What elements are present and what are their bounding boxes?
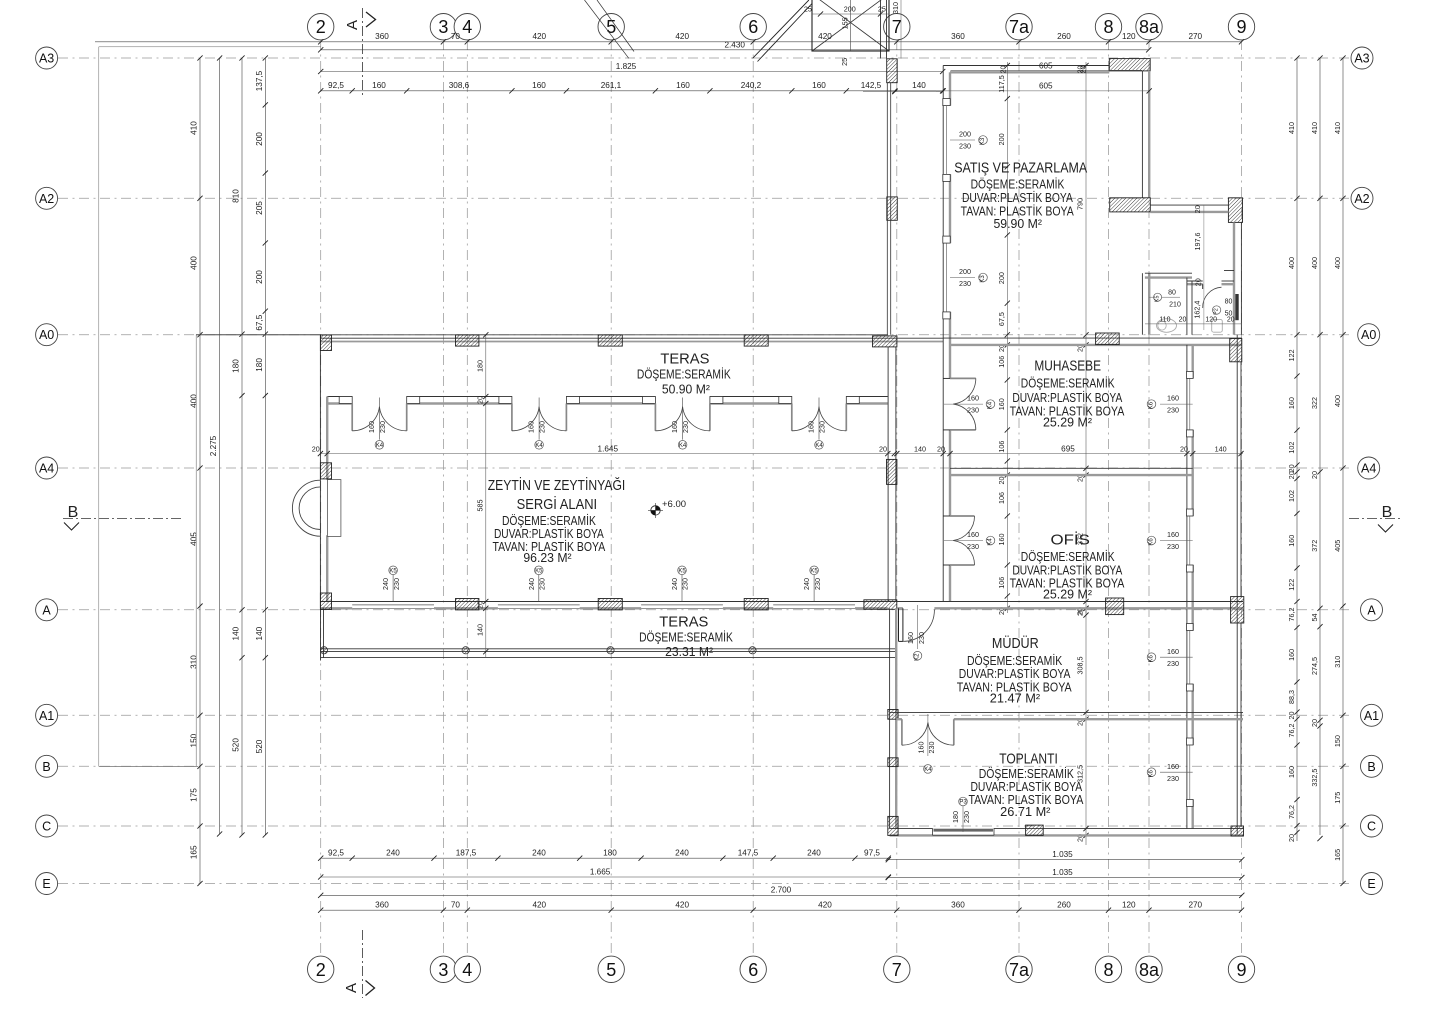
svg-text:120: 120	[1122, 32, 1136, 41]
svg-text:410: 410	[190, 121, 199, 135]
svg-text:230: 230	[681, 421, 690, 433]
svg-text:230: 230	[959, 142, 971, 151]
svg-text:200: 200	[997, 272, 1006, 284]
svg-text:187,5: 187,5	[456, 848, 477, 857]
MUDUR/TOPLANTI west wall	[889, 608, 891, 828]
wall row C (TOPLANTI south)	[890, 828, 1244, 830]
svg-text:K2: K2	[915, 653, 921, 661]
svg-text:DUVAR:PLASTİK BOYA: DUVAR:PLASTİK BOYA	[1012, 564, 1122, 578]
grid bubbles bottom	[308, 956, 334, 982]
hall west wall	[319, 335, 321, 608]
svg-text:K5: K5	[389, 568, 397, 574]
hall entrance door west: swing arcs	[292, 480, 320, 536]
svg-text:7a: 7a	[1009, 17, 1030, 37]
svg-text:322: 322	[1310, 397, 1319, 409]
svg-text:160: 160	[1167, 762, 1179, 771]
svg-text:DUVAR:PLASTİK BOYA: DUVAR:PLASTİK BOYA	[494, 527, 604, 541]
dimension 1.035 upper	[888, 859, 1242, 861]
svg-text:DUVAR:PLASTİK BOYA: DUVAR:PLASTİK BOYA	[959, 667, 1071, 681]
grid bubbles top	[308, 14, 334, 40]
grid bubbles right	[1351, 47, 1373, 69]
svg-text:230: 230	[962, 811, 971, 823]
svg-text:230: 230	[1167, 659, 1179, 668]
svg-text:20: 20	[1179, 317, 1187, 324]
WC door P2 arc	[1203, 287, 1222, 308]
roof diagonal pair east	[753, 0, 809, 58]
svg-text:106: 106	[997, 356, 1006, 368]
svg-text:1.665: 1.665	[590, 867, 611, 876]
door K2 leaf and arc	[898, 608, 900, 641]
extension line A0 left	[196, 334, 321, 336]
svg-text:P2: P2	[1214, 308, 1220, 315]
office block A0 north wall	[943, 337, 1242, 339]
svg-text:400: 400	[1287, 257, 1296, 269]
svg-text:405: 405	[190, 532, 199, 546]
svg-text:DUVAR:PLASTİK BOYA: DUVAR:PLASTİK BOYA	[1012, 391, 1122, 405]
sales top dimension rows	[951, 69, 1143, 71]
svg-text:160: 160	[906, 632, 915, 644]
svg-text:K6: K6	[1149, 401, 1155, 409]
svg-text:1.035: 1.035	[1052, 850, 1073, 859]
svg-text:137,5: 137,5	[255, 70, 264, 91]
svg-text:117,5: 117,5	[997, 75, 1006, 92]
bottom column spacing chain	[321, 909, 1242, 911]
svg-text:200: 200	[255, 132, 264, 146]
svg-text:20: 20	[1193, 278, 1202, 286]
svg-text:25.29 M²: 25.29 M²	[1043, 588, 1092, 602]
wire: A0 line solid across hall	[196, 334, 888, 336]
svg-text:520: 520	[232, 738, 241, 752]
svg-text:160: 160	[676, 81, 690, 90]
svg-text:A0: A0	[1361, 328, 1376, 342]
svg-text:20: 20	[1310, 719, 1319, 727]
svg-text:200: 200	[959, 267, 971, 276]
svg-text:150: 150	[1333, 735, 1342, 747]
svg-text:DÖŞEME:SERAMİK: DÖŞEME:SERAMİK	[979, 767, 1075, 781]
svg-text:20: 20	[1227, 317, 1235, 324]
svg-text:76,2: 76,2	[1287, 608, 1296, 622]
svg-text:K3: K3	[980, 275, 986, 283]
svg-text:2: 2	[316, 960, 326, 980]
lower terrace edge lines and columns	[320, 608, 322, 660]
pier at col7 top (A3)	[887, 59, 898, 83]
sales interior chain x=1086	[1085, 62, 1087, 613]
svg-text:230: 230	[1167, 774, 1179, 783]
svg-text:197,6: 197,6	[1193, 233, 1202, 251]
svg-text:160: 160	[670, 421, 679, 433]
top window dimension row	[321, 90, 943, 92]
svg-text:308,5: 308,5	[1076, 657, 1085, 675]
svg-text:8: 8	[1103, 17, 1113, 37]
svg-text:155: 155	[841, 17, 850, 29]
svg-text:DÖŞEME:SERAMİK: DÖŞEME:SERAMİK	[971, 178, 1065, 192]
svg-text:E: E	[42, 877, 50, 891]
svg-text:410: 410	[1333, 122, 1342, 134]
svg-text:70: 70	[451, 32, 461, 41]
extension line x=196 A0 to B	[195, 335, 197, 767]
svg-text:K4: K4	[815, 443, 823, 449]
door K4 into room at y=404	[943, 377, 950, 379]
window K5 at x=814	[813, 575, 815, 602]
svg-text:59.90 M²: 59.90 M²	[993, 217, 1042, 231]
svg-text:270: 270	[1188, 900, 1202, 909]
svg-text:420: 420	[818, 900, 832, 909]
svg-text:K4: K4	[924, 767, 932, 773]
piers on A0 line	[320, 335, 331, 351]
svg-text:TERAS: TERAS	[659, 614, 708, 631]
svg-text:230: 230	[967, 406, 979, 415]
svg-text:A4: A4	[1361, 462, 1376, 476]
office east wall with K6 windows	[1186, 345, 1188, 829]
svg-text:8a: 8a	[1139, 17, 1160, 37]
dimension 1.035 lower	[888, 877, 1242, 879]
svg-text:K5: K5	[1155, 296, 1161, 303]
svg-text:80: 80	[1168, 290, 1176, 297]
svg-text:21.47 M²: 21.47 M²	[990, 692, 1040, 706]
svg-text:K5: K5	[535, 568, 543, 574]
sales west wall with K3 windows and K4 doors	[942, 66, 944, 602]
svg-text:4: 4	[462, 17, 472, 37]
svg-text:A2: A2	[39, 192, 54, 206]
hall interior dimension chain x=486	[485, 335, 487, 658]
svg-text:102: 102	[1287, 442, 1296, 454]
svg-text:420: 420	[532, 32, 546, 41]
wire: A0 terrace edge double line	[321, 337, 943, 339]
svg-text:A: A	[344, 20, 361, 30]
svg-text:110: 110	[1159, 317, 1170, 324]
svg-text:K3: K3	[980, 137, 986, 145]
wall row A (OFIS/MUDUR) with door K2	[864, 601, 1243, 603]
shaft dims	[812, 13, 889, 15]
level marker +6.00	[651, 506, 660, 515]
svg-text:DÖŞEME:SERAMİK: DÖŞEME:SERAMİK	[639, 631, 733, 645]
svg-text:K6: K6	[1149, 769, 1155, 777]
svg-text:308,6: 308,6	[449, 81, 470, 90]
dimension 2.700	[321, 894, 1242, 896]
svg-text:6: 6	[748, 960, 758, 980]
svg-text:25: 25	[840, 58, 849, 66]
svg-text:TOPLANTI: TOPLANTI	[999, 751, 1058, 768]
svg-text:20: 20	[312, 444, 320, 453]
svg-text:360: 360	[375, 32, 389, 41]
svg-text:K6: K6	[1149, 654, 1155, 662]
svg-text:102: 102	[1287, 490, 1296, 502]
svg-text:K4: K4	[988, 538, 994, 546]
svg-text:605: 605	[1039, 61, 1053, 70]
svg-text:120: 120	[1205, 317, 1217, 324]
terrace column at x=610.5	[607, 647, 614, 654]
svg-text:240: 240	[802, 578, 811, 590]
window K6 at y=540	[1187, 509, 1194, 516]
svg-text:150: 150	[190, 733, 199, 747]
svg-text:165: 165	[190, 845, 199, 859]
svg-text:A: A	[343, 983, 360, 993]
pier col7 at A4	[887, 459, 897, 484]
svg-text:140: 140	[912, 81, 926, 90]
svg-text:160: 160	[1287, 766, 1296, 778]
WC east outer wall	[1233, 222, 1235, 334]
svg-text:810: 810	[232, 189, 241, 203]
dimension 1.825	[321, 71, 943, 73]
svg-text:210: 210	[1169, 302, 1181, 309]
svg-text:274,5: 274,5	[1310, 657, 1319, 675]
svg-text:360: 360	[375, 900, 389, 909]
svg-text:420: 420	[818, 32, 832, 41]
svg-text:DUVAR:PLASTİK BOYA: DUVAR:PLASTİK BOYA	[962, 191, 1073, 205]
svg-text:695: 695	[1061, 444, 1075, 453]
svg-text:200: 200	[997, 133, 1006, 145]
svg-text:DÖŞEME:SERAMİK: DÖŞEME:SERAMİK	[637, 368, 731, 382]
svg-text:8a: 8a	[1139, 960, 1160, 980]
shaft box with X	[812, 0, 889, 51]
svg-text:180: 180	[232, 359, 241, 373]
svg-text:3: 3	[438, 17, 448, 37]
svg-text:140: 140	[1215, 444, 1227, 453]
hall south wall with K5 windows	[320, 601, 1243, 603]
svg-text:585: 585	[476, 500, 485, 512]
extension line top-left horizontal	[99, 46, 321, 48]
left chain 810/180/140/520	[241, 58, 243, 835]
svg-text:230: 230	[537, 421, 546, 433]
svg-text:20: 20	[1180, 444, 1188, 453]
svg-text:97,5: 97,5	[864, 848, 880, 857]
svg-text:230: 230	[538, 578, 547, 590]
svg-text:B: B	[42, 760, 50, 774]
svg-text:230: 230	[1167, 542, 1179, 551]
svg-text:180: 180	[476, 360, 485, 372]
left chain window offsets	[264, 58, 266, 835]
svg-text:180: 180	[255, 358, 264, 372]
sales east wall upper	[1141, 71, 1143, 198]
svg-text:20: 20	[1287, 712, 1296, 720]
pier A3 col8-8a	[1109, 59, 1150, 71]
extension line far left vertical	[98, 47, 100, 767]
svg-text:230: 230	[378, 421, 387, 433]
svg-text:23.31 M²: 23.31 M²	[665, 645, 713, 659]
svg-text:5: 5	[606, 960, 616, 980]
svg-text:8: 8	[1103, 960, 1113, 980]
svg-text:160: 160	[1287, 397, 1296, 409]
window K4 at x=379: jambs, leaves, swing arcs	[339, 397, 352, 404]
svg-text:230: 230	[813, 578, 822, 590]
svg-text:106: 106	[997, 492, 1006, 504]
svg-text:TERAS: TERAS	[660, 351, 709, 368]
svg-text:180: 180	[603, 848, 617, 857]
terrace column at x=324	[320, 647, 327, 654]
dimension line at corridor top	[863, 91, 943, 93]
svg-text:E: E	[1367, 877, 1375, 891]
right chain R3	[1342, 58, 1344, 884]
WC west wall	[1141, 273, 1143, 335]
svg-text:+6.00: +6.00	[662, 499, 686, 510]
svg-text:B: B	[1367, 760, 1375, 774]
svg-text:260: 260	[1057, 900, 1071, 909]
svg-text:520: 520	[255, 739, 264, 753]
svg-text:160: 160	[532, 81, 546, 90]
svg-text:160: 160	[1167, 394, 1179, 403]
svg-text:67,5: 67,5	[255, 314, 264, 330]
svg-text:240: 240	[527, 578, 536, 590]
hall east wall (corridor side)	[887, 347, 889, 602]
svg-text:160: 160	[916, 742, 925, 754]
WC north partition	[1145, 272, 1192, 274]
svg-text:26.71 M²: 26.71 M²	[1000, 805, 1050, 819]
svg-text:205: 205	[255, 201, 264, 215]
svg-text:MUHASEBE: MUHASEBE	[1034, 357, 1101, 374]
svg-text:A1: A1	[1364, 709, 1379, 723]
svg-text:A: A	[42, 603, 51, 617]
svg-text:C: C	[42, 820, 51, 834]
section A-A line top	[362, 8, 364, 97]
svg-text:400: 400	[1310, 257, 1319, 269]
svg-text:6: 6	[748, 17, 758, 37]
svg-text:A: A	[1367, 603, 1376, 617]
svg-text:SERGİ ALANI: SERGİ ALANI	[517, 495, 598, 513]
svg-text:96.23 M²: 96.23 M²	[523, 551, 571, 565]
svg-text:420: 420	[675, 32, 689, 41]
piers on row A	[320, 593, 331, 610]
svg-text:25: 25	[878, 5, 886, 14]
svg-text:240: 240	[381, 578, 390, 590]
left chain outer (row spacing)	[199, 58, 201, 884]
svg-text:400: 400	[190, 256, 199, 270]
right chain R1	[1296, 58, 1298, 841]
svg-text:A3: A3	[39, 52, 54, 66]
door K4 into room at y=540	[943, 515, 950, 517]
svg-text:20: 20	[879, 444, 887, 453]
pier col7 at A2	[887, 197, 898, 220]
svg-text:160: 160	[527, 421, 536, 433]
svg-text:200: 200	[959, 130, 971, 139]
svg-text:20: 20	[1076, 66, 1085, 74]
top dimension chain (column spacing)	[95, 41, 1242, 43]
svg-text:88,3: 88,3	[1287, 690, 1296, 704]
svg-text:120: 120	[1122, 900, 1136, 909]
svg-text:142,5: 142,5	[861, 81, 882, 90]
svg-text:160: 160	[1167, 647, 1179, 656]
svg-text:9: 9	[1236, 17, 1246, 37]
svg-text:1.645: 1.645	[598, 444, 619, 453]
svg-text:7: 7	[892, 17, 902, 37]
svg-text:140: 140	[255, 626, 264, 640]
window K3 at y=140	[943, 99, 950, 106]
svg-text:240: 240	[532, 848, 546, 857]
svg-text:230: 230	[967, 542, 979, 551]
right chain R2	[1319, 58, 1321, 835]
svg-text:310: 310	[1333, 656, 1342, 668]
svg-text:372: 372	[1310, 540, 1319, 552]
terrace column at x=752.5	[749, 647, 756, 654]
dimension 2.430	[321, 49, 1149, 51]
svg-text:332,5: 332,5	[1310, 769, 1319, 787]
svg-text:261,1: 261,1	[601, 81, 622, 90]
svg-text:180: 180	[951, 811, 960, 823]
svg-text:140: 140	[914, 444, 926, 453]
svg-text:260: 260	[1057, 32, 1071, 41]
svg-text:76,2: 76,2	[1287, 805, 1296, 819]
svg-text:20: 20	[1310, 471, 1319, 479]
window K3 at y=278	[943, 236, 950, 243]
svg-text:A3: A3	[1354, 52, 1369, 66]
svg-text:230: 230	[959, 279, 971, 288]
svg-text:20: 20	[1287, 834, 1296, 842]
svg-text:310: 310	[190, 655, 199, 669]
svg-text:50.90 M²: 50.90 M²	[662, 383, 710, 397]
svg-text:230: 230	[917, 632, 926, 644]
svg-text:3: 3	[438, 960, 448, 980]
courtyard west double line (col 7)	[886, 83, 888, 335]
svg-text:605: 605	[1039, 81, 1053, 90]
svg-text:4: 4	[462, 960, 472, 980]
left chain 2.275	[219, 58, 221, 834]
svg-text:140: 140	[232, 626, 241, 640]
terrace column at x=465.7	[462, 647, 469, 654]
grid: horizontal row axes	[58, 57, 1352, 59]
window K4 at x=819: jambs, leaves, swing arcs	[779, 397, 792, 404]
window K4 at x=683: jambs, leaves, swing arcs	[642, 397, 655, 404]
svg-text:240: 240	[807, 848, 821, 857]
svg-text:230: 230	[1167, 406, 1179, 415]
svg-text:OFİS: OFİS	[1051, 531, 1090, 549]
svg-text:25.29 M²: 25.29 M²	[1043, 416, 1092, 430]
svg-text:K4: K4	[988, 401, 994, 409]
svg-text:K4: K4	[679, 443, 687, 449]
svg-text:160: 160	[997, 398, 1006, 410]
svg-text:165: 165	[1333, 849, 1342, 861]
svg-text:360: 360	[951, 900, 965, 909]
svg-text:400: 400	[190, 394, 199, 408]
svg-text:310: 310	[891, 2, 900, 14]
svg-text:P3: P3	[959, 800, 967, 806]
svg-text:160: 160	[967, 530, 979, 539]
svg-text:7: 7	[892, 960, 902, 980]
svg-text:122: 122	[1287, 349, 1296, 361]
svg-text:9: 9	[1236, 960, 1246, 980]
svg-text:70: 70	[451, 900, 461, 909]
svg-text:400: 400	[1333, 257, 1342, 269]
wall row A1 (MUDUR/TOPLANTI) with double door K4	[890, 711, 1243, 713]
svg-text:405: 405	[1333, 540, 1342, 552]
svg-text:20: 20	[1193, 205, 1202, 213]
svg-text:230: 230	[681, 578, 690, 590]
svg-text:K5: K5	[678, 568, 686, 574]
svg-text:80: 80	[1225, 299, 1233, 306]
window P2 strip in east wall	[1235, 294, 1238, 320]
svg-text:270: 270	[1188, 32, 1202, 41]
svg-text:200: 200	[255, 270, 264, 284]
svg-text:175: 175	[1333, 792, 1342, 804]
svg-text:1.035: 1.035	[1052, 868, 1073, 877]
extension line B left	[99, 765, 198, 767]
svg-text:240: 240	[675, 848, 689, 857]
svg-text:420: 420	[532, 900, 546, 909]
sales interior chain x=1007	[1006, 62, 1008, 613]
svg-text:A2: A2	[1354, 192, 1369, 206]
svg-text:K4: K4	[535, 443, 543, 449]
svg-text:400: 400	[1333, 395, 1342, 407]
svg-text:140: 140	[476, 624, 485, 636]
svg-text:175: 175	[190, 788, 199, 802]
svg-text:2: 2	[316, 17, 326, 37]
grid bubbles left	[36, 47, 58, 69]
svg-text:C: C	[1367, 820, 1376, 834]
svg-text:20: 20	[937, 444, 945, 453]
svg-text:K6: K6	[1149, 538, 1155, 546]
toilet	[1157, 319, 1177, 333]
WC middle partition	[1186, 278, 1188, 335]
svg-text:160: 160	[1287, 649, 1296, 661]
svg-text:147,5: 147,5	[738, 848, 759, 857]
